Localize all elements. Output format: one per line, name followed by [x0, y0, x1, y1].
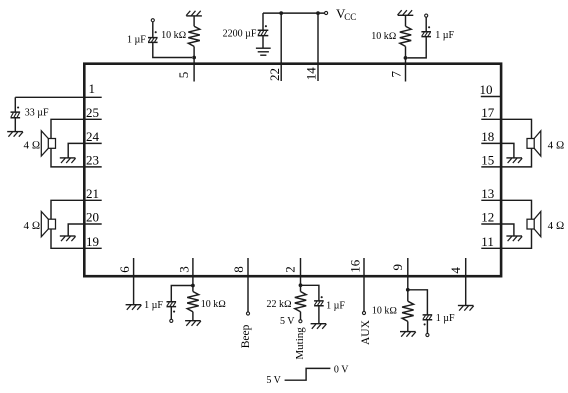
- label 10 kΩ: [161, 30, 187, 41]
- terminal (pin 9): [426, 333, 429, 336]
- svg-text:1 µF: 1 µF: [435, 30, 454, 41]
- wire pin 16 stub: [363, 258, 365, 311]
- svg-text:4 Ω: 4 Ω: [24, 220, 41, 232]
- svg-text:24: 24: [86, 129, 100, 144]
- label 1 µF (pin 5): [127, 34, 146, 45]
- svg-text:1 µF: 1 µF: [144, 300, 163, 311]
- pin 12 number: [481, 210, 494, 225]
- label 1 µF (pin 9): [436, 313, 455, 324]
- node pin 14 on Vcc rail: [316, 11, 320, 15]
- pin 21 number: [86, 186, 99, 201]
- muting step waveform: [285, 368, 331, 380]
- wire ground to resistor (pin 7): [405, 15, 407, 26]
- ground (chassis, pin 18): [506, 158, 522, 163]
- wire Vcc rail: [263, 12, 325, 14]
- wire pin 13 to speaker: [481, 200, 531, 219]
- label V_CC: [336, 6, 356, 22]
- wire pin 1 stub: [15, 96, 101, 98]
- svg-text:AUX: AUX: [360, 319, 372, 345]
- ground (chassis, pin 20): [60, 236, 76, 241]
- node pin 3 junction: [191, 284, 195, 288]
- wire pin 9 stub: [407, 258, 409, 290]
- svg-text:1 µF: 1 µF: [127, 34, 146, 45]
- ground (chassis, pin 12): [506, 236, 522, 241]
- svg-text:10 kΩ: 10 kΩ: [372, 306, 398, 317]
- loudspeaker 4 Ω (upper left): [41, 131, 55, 156]
- wire resistor to ground (pin 3): [192, 312, 194, 321]
- wire pin 17 to speaker: [481, 119, 531, 138]
- svg-text:5 V: 5 V: [266, 375, 281, 386]
- wire pin 22 stub: [280, 13, 282, 81]
- wire speaker to pin 19: [51, 229, 102, 248]
- capacitor 1 µF (pin 9): [408, 290, 432, 334]
- polarity + mark: [155, 31, 157, 33]
- capacitor 1 µF (pin 7 input): [408, 17, 432, 58]
- node pin 2 junction: [299, 283, 303, 287]
- wire resistor to ground (pin 9): [407, 321, 409, 331]
- node pin 22 on Vcc rail: [279, 11, 283, 15]
- svg-text:Muting: Muting: [294, 327, 306, 360]
- pin 25 number: [86, 105, 99, 120]
- ground (chassis, pin 4): [458, 306, 474, 311]
- svg-text:CC: CC: [344, 12, 356, 22]
- label 5 V (waveform): [266, 375, 281, 386]
- svg-text:2200 µF: 2200 µF: [223, 28, 257, 39]
- svg-text:4 Ω: 4 Ω: [548, 220, 565, 232]
- label 10 kΩ (pin 9): [372, 306, 398, 317]
- capacitor 33 µF (pin 1): [11, 97, 21, 131]
- ground (chassis, top of 10 kΩ at pin 7): [398, 10, 414, 15]
- wire resistor to node pin5: [193, 46, 195, 57]
- svg-text:8: 8: [231, 266, 246, 273]
- svg-text:Beep: Beep: [240, 324, 252, 348]
- terminal (pin 5 input): [151, 19, 154, 22]
- svg-text:10 kΩ: 10 kΩ: [161, 30, 187, 41]
- label Muting: [294, 327, 306, 360]
- wire pin 18 to ground: [481, 143, 514, 158]
- pin 22 number: [267, 68, 282, 81]
- svg-text:12: 12: [481, 210, 494, 225]
- wire pin 14 stub: [317, 13, 319, 81]
- ground (chassis, pin 6): [126, 305, 142, 310]
- capacitor 1 µF (pin 2): [301, 285, 324, 323]
- wire resistor to terminal (pin 2): [300, 312, 302, 320]
- terminal AUX: [362, 311, 365, 314]
- label 10 kΩ (pin 7): [371, 31, 397, 42]
- wire pin 6 stub to ground: [133, 258, 135, 305]
- pin 7 number: [389, 71, 404, 78]
- wire pin 24 to ground: [68, 143, 102, 158]
- svg-text:3: 3: [176, 266, 191, 273]
- svg-text:1 µF: 1 µF: [436, 313, 455, 324]
- pin 24 number: [86, 129, 100, 144]
- svg-text:22 kΩ: 22 kΩ: [267, 299, 293, 310]
- wire node to resistor (pin 9): [407, 290, 409, 301]
- loudspeaker 4 Ω (lower right): [527, 212, 541, 237]
- wire pin 5 stub: [193, 58, 195, 82]
- terminal Beep: [246, 312, 249, 315]
- node pin 5 junction: [192, 56, 196, 60]
- svg-text:20: 20: [86, 210, 99, 225]
- polarity + mark 33 µF: [17, 106, 19, 108]
- wire ground to resistor: [193, 16, 195, 26]
- wire pin 21 to speaker: [51, 200, 102, 219]
- label 2200 µF: [223, 28, 257, 39]
- loudspeaker 4 Ω (upper right): [527, 131, 541, 156]
- pin 10 number: [480, 82, 493, 97]
- svg-text:19: 19: [86, 234, 99, 249]
- pin 9 number: [390, 264, 405, 271]
- pin 23 number: [86, 153, 99, 168]
- label 1 µF (pin 7): [435, 30, 454, 41]
- wire pin 10 stub: [481, 96, 502, 98]
- terminal Vcc: [325, 11, 328, 14]
- pin 8 number: [231, 266, 246, 273]
- resistor 22 kΩ (muting): [295, 292, 306, 312]
- wire node to resistor (pin 3): [192, 286, 194, 292]
- pin 16 number: [348, 259, 363, 273]
- svg-text:16: 16: [348, 259, 363, 273]
- label 22 kΩ: [267, 299, 293, 310]
- ground (chassis, pin 24): [60, 158, 76, 163]
- pin 11 number: [481, 234, 494, 249]
- node pin 7 junction: [404, 56, 408, 60]
- label 4 Ω (lower right): [548, 220, 565, 232]
- terminal Muting 5 V: [299, 320, 302, 323]
- wire pin 25 to speaker: [51, 119, 102, 138]
- ground (earth, 2200 µF): [256, 48, 271, 55]
- resistor 10 kΩ (pin 5 bias): [188, 26, 200, 46]
- wire pin 12 to ground: [481, 224, 514, 236]
- pin 18 number: [481, 129, 494, 144]
- pin 5 number: [176, 72, 191, 79]
- wire pin 4 stub to ground: [465, 258, 467, 306]
- pin 1 number: [89, 81, 96, 96]
- svg-text:22: 22: [267, 68, 282, 81]
- pin 14 number: [304, 67, 319, 81]
- pin 4 number: [448, 267, 463, 274]
- label 1 µF (pin 3): [144, 300, 163, 311]
- label 0 V (waveform): [334, 365, 349, 376]
- svg-text:15: 15: [481, 153, 494, 168]
- ground (chassis, pin 9): [400, 332, 416, 337]
- ground (chassis, pin 3): [185, 321, 201, 326]
- label Beep: [240, 324, 252, 348]
- wire speaker to pin 23: [51, 148, 102, 167]
- pin 15 number: [481, 153, 494, 168]
- svg-text:21: 21: [86, 186, 99, 201]
- pin 17 number: [481, 105, 495, 120]
- wire speaker to pin 15: [481, 148, 531, 167]
- svg-text:4 Ω: 4 Ω: [24, 139, 41, 151]
- op-amp IC body (25-pin power amplifier): [84, 64, 501, 277]
- pin 3 number: [176, 266, 191, 273]
- ground (chassis, 33 µF): [7, 132, 23, 137]
- svg-text:18: 18: [481, 129, 494, 144]
- polarity + mark (pin 7 cap): [428, 26, 430, 28]
- wire pin 2 stub: [300, 258, 302, 285]
- label 4 Ω (upper right): [548, 139, 565, 151]
- svg-text:13: 13: [481, 186, 494, 201]
- svg-text:10: 10: [480, 82, 493, 97]
- label AUX: [360, 319, 372, 345]
- wire speaker to pin 11: [481, 229, 531, 248]
- label 1 µF (pin 2): [326, 301, 345, 312]
- svg-text:0 V: 0 V: [334, 365, 349, 376]
- svg-text:9: 9: [390, 264, 405, 271]
- label 33 µF: [25, 108, 49, 119]
- terminal (pin 3): [170, 319, 173, 322]
- wire pin 7 stub: [405, 58, 407, 82]
- wire pin 3 stub: [192, 258, 194, 286]
- svg-text:4: 4: [448, 267, 463, 274]
- svg-text:4 Ω: 4 Ω: [548, 139, 565, 151]
- polarity + mark (pin 2 cap): [321, 296, 323, 298]
- resistor 10 kΩ (pin 7 bias): [400, 26, 411, 46]
- ground (chassis, pin 2 cap): [311, 324, 327, 329]
- label 10 kΩ (pin 3): [201, 299, 227, 310]
- capacitor 2200 µF (supply decoupling): [258, 13, 269, 48]
- svg-text:17: 17: [481, 105, 495, 120]
- wire node to resistor (pin 2): [300, 285, 302, 291]
- resistor 10 kΩ (pin 3): [187, 292, 199, 312]
- pin 19 number: [86, 234, 99, 249]
- polarity + mark (pin 3 cap): [173, 311, 175, 313]
- label 4 Ω (lower left): [24, 220, 41, 232]
- svg-text:5: 5: [176, 72, 191, 79]
- svg-text:10 kΩ: 10 kΩ: [371, 31, 397, 42]
- ground (chassis, top of 10 kΩ at pin 5): [186, 11, 202, 16]
- svg-text:10 kΩ: 10 kΩ: [201, 299, 227, 310]
- loudspeaker 4 Ω (lower left): [41, 212, 55, 237]
- node pin 9 junction: [406, 288, 410, 292]
- wire pin 20 to ground: [68, 224, 102, 236]
- svg-text:11: 11: [481, 234, 494, 249]
- pin 20 number: [86, 210, 99, 225]
- svg-text:1: 1: [89, 81, 96, 96]
- svg-text:14: 14: [304, 67, 319, 81]
- label 4 Ω (upper left): [24, 139, 41, 151]
- svg-text:23: 23: [86, 153, 99, 168]
- terminal (pin 7 input): [425, 14, 428, 17]
- svg-text:1 µF: 1 µF: [326, 301, 345, 312]
- svg-text:33 µF: 33 µF: [25, 108, 49, 119]
- resistor 10 kΩ (pin 9): [402, 301, 414, 321]
- svg-text:6: 6: [117, 266, 132, 273]
- svg-text:7: 7: [389, 71, 404, 78]
- capacitor 1 µF (pin 5 input): [148, 22, 192, 58]
- capacitor 1 µF (pin 3): [167, 286, 193, 320]
- pin 13 number: [481, 186, 494, 201]
- polarity + mark 2200 µF: [265, 25, 267, 27]
- wire resistor to node pin7: [405, 46, 407, 58]
- pin 2 number: [283, 266, 298, 273]
- polarity + mark (pin 9 cap): [424, 323, 426, 325]
- pin 6 number: [117, 266, 132, 273]
- svg-text:5 V: 5 V: [280, 316, 295, 327]
- svg-text:2: 2: [283, 266, 298, 273]
- label 5 V (muting): [280, 316, 295, 327]
- wire pin 8 stub: [247, 258, 249, 312]
- svg-text:25: 25: [86, 105, 99, 120]
